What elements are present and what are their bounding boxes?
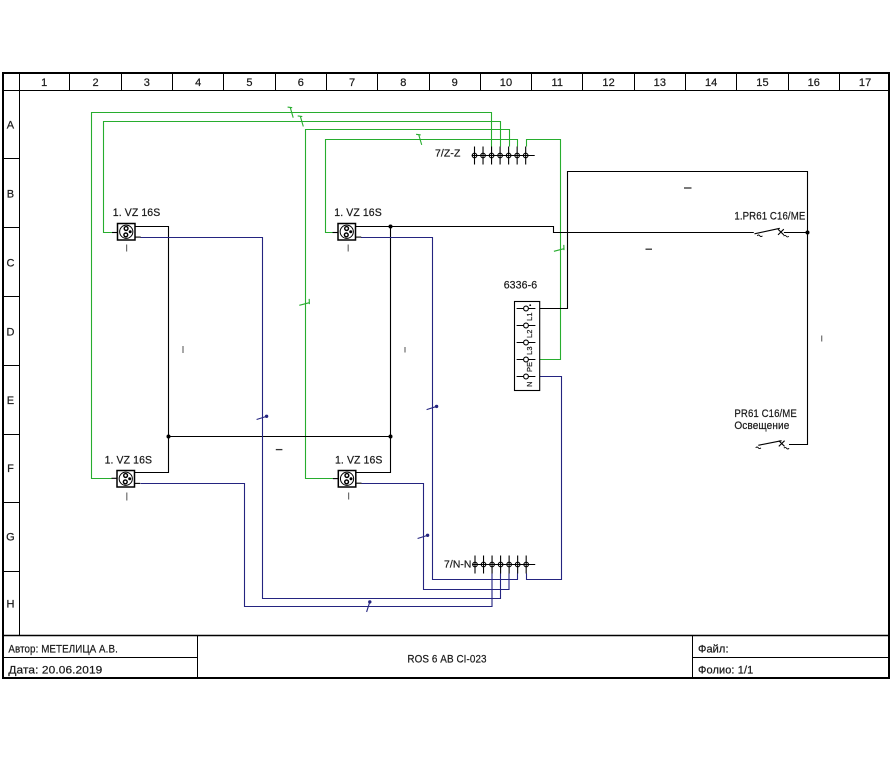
conductor mark on blue riser of X2 <box>427 406 438 409</box>
junction dot at node x=807 <box>806 231 810 235</box>
svg-text:L1: L1 <box>525 312 534 321</box>
svg-text:7/Z-Z: 7/Z-Z <box>435 149 461 160</box>
svg-text:N: N <box>525 381 534 387</box>
wire L black: riser socket X2 to socket X4 <box>355 227 390 473</box>
svg-text:13: 13 <box>654 77 666 89</box>
svg-text:ROS 6 АВ CI-023: ROS 6 АВ CI-023 <box>407 653 486 665</box>
wire number tick below X2 <box>347 245 349 252</box>
wire PE green: socket X2 to terminal strip 7/Z-Z terminal 6 <box>326 140 518 233</box>
svg-text:Фолио: 1/1: Фолио: 1/1 <box>698 665 753 677</box>
wire L black: node up and across to 6336-6 terminal L1 <box>536 172 808 309</box>
svg-text:6: 6 <box>298 77 304 89</box>
svg-text:8: 8 <box>400 77 406 89</box>
svg-text:Дата: 20.06.2019: Дата: 20.06.2019 <box>8 665 102 677</box>
conductor mark on green vertical wire to PE <box>554 245 564 251</box>
socket outlet X1 (1. VZ 16S) <box>112 232 118 234</box>
junction dot right of cross link <box>389 435 393 439</box>
socket outlet X2 (1. VZ 16S) <box>333 232 339 234</box>
svg-text:C: C <box>6 257 14 269</box>
wire number tick below X4 <box>348 493 350 500</box>
wire L black: node down to switch PR61 lighting <box>789 233 808 445</box>
wire L black: cross link between X1-X3 riser and X2-X4 riser <box>169 436 391 438</box>
wire N blue: socket X3 to 7/N-N terminal 3 <box>141 484 493 607</box>
svg-text:12: 12 <box>602 77 614 89</box>
svg-text:4: 4 <box>195 77 201 89</box>
wire PE green: 7/Z-Z terminal 7 to 6336-6 terminal PE <box>527 140 561 360</box>
svg-text:7: 7 <box>349 77 355 89</box>
svg-text:L3: L3 <box>525 346 534 355</box>
junction dot at X2 branch <box>389 225 393 229</box>
terminal block 6336-6 <box>515 302 540 391</box>
svg-text:D: D <box>6 326 14 338</box>
dash mark on wire near node (upper) <box>684 187 692 189</box>
terminal strip 7/N-N (7 terminals) <box>472 564 535 566</box>
conductor mark on green wire H1 <box>288 107 294 118</box>
svg-text:1: 1 <box>41 77 47 89</box>
svg-text:16: 16 <box>808 77 820 89</box>
switch contact 1.PR61 C16/ME <box>755 228 780 234</box>
wire number tick on right riser <box>821 336 823 342</box>
conductor mark on green wire H2 <box>298 116 304 127</box>
conductor mark on green wire H4 <box>416 134 422 145</box>
switch contact PR61 C16/ME lighting <box>758 441 781 446</box>
svg-text:2: 2 <box>92 77 98 89</box>
svg-text:5: 5 <box>246 77 252 89</box>
wire N blue: socket X2 to 7/N-N terminal 6 <box>361 238 518 580</box>
wire number tick below X1 <box>126 245 128 252</box>
svg-text:PE: PE <box>525 362 534 372</box>
terminal strip 7/Z-Z (7 terminals) <box>472 155 535 157</box>
svg-text:7/N-N: 7/N-N <box>444 560 472 571</box>
svg-text:1. VZ 16S: 1. VZ 16S <box>334 207 382 219</box>
wire PE green: socket X4 to terminal strip 7/Z-Z terminal 5 <box>306 130 510 479</box>
conductor mark on green vertical wire to X4 <box>299 299 309 305</box>
svg-text:1.PR61 C16/ME: 1.PR61 C16/ME <box>734 211 805 223</box>
svg-text:14: 14 <box>705 77 717 89</box>
wire L black: socket X2 to switch 1.PR61 <box>356 227 754 233</box>
socket outlet X3 (1. VZ 16S) <box>112 477 118 479</box>
svg-text:3: 3 <box>144 77 150 89</box>
svg-text:15: 15 <box>756 77 768 89</box>
wire PE green: socket X3 to terminal strip 7/Z-Z terminal 3 <box>92 113 492 479</box>
svg-text:Автор: МЕТЕЛИЦА А.В.: Автор: МЕТЕЛИЦА А.В. <box>8 643 118 655</box>
wire N blue: 6336-6 terminal N to 7/N-N terminal 7 <box>527 377 562 580</box>
svg-text:10: 10 <box>500 77 512 89</box>
svg-text:17: 17 <box>859 77 871 89</box>
svg-text:6336-6: 6336-6 <box>504 280 538 292</box>
svg-text:PR61 C16/ME: PR61 C16/ME <box>734 408 797 420</box>
wire PE green: socket X1 to terminal strip 7/Z-Z terminal 4 <box>104 122 501 233</box>
svg-text:E: E <box>7 395 14 407</box>
svg-text:A: A <box>7 119 15 131</box>
svg-text:Файл:: Файл: <box>698 643 729 655</box>
junction dot left of cross link <box>167 435 171 439</box>
svg-text:H: H <box>6 599 14 611</box>
wire number tick below X3 <box>126 493 128 501</box>
wire L black: socket X1 to socket X3 <box>135 227 169 473</box>
TITLE BLOCK <box>2 636 889 678</box>
wire number tick on riser X2-X4 <box>404 347 406 353</box>
svg-text:11: 11 <box>551 77 563 89</box>
svg-text:Освещение: Освещение <box>734 420 789 432</box>
conductor mark on blue horizontal of X3 <box>367 601 370 612</box>
conductor mark on blue riser of X4 <box>418 535 429 538</box>
svg-text:B: B <box>7 188 14 200</box>
socket outlet X4 (1. VZ 16S) <box>333 478 339 480</box>
wire L black: switch 1.PR61 right side to node <box>784 232 808 234</box>
svg-text:1. VZ 16S: 1. VZ 16S <box>105 455 153 467</box>
conductor mark on blue riser of X1 <box>257 416 268 419</box>
wire number tick on riser X1-X3 <box>182 346 184 353</box>
svg-text:1. VZ 16S: 1. VZ 16S <box>113 207 161 219</box>
svg-text:G: G <box>6 532 15 544</box>
svg-text:L2: L2 <box>525 329 534 338</box>
svg-text:F: F <box>7 463 14 475</box>
dash mark on wire near node (lower) <box>646 248 653 250</box>
svg-text:9: 9 <box>452 77 458 89</box>
svg-text:1. VZ 16S: 1. VZ 16S <box>335 455 383 467</box>
dash mark near cross link <box>276 449 283 451</box>
wire N blue: socket X4 to 7/N-N terminal 5 <box>362 484 510 590</box>
wire N blue: socket X1 to 7/N-N terminal 4 <box>141 238 501 599</box>
